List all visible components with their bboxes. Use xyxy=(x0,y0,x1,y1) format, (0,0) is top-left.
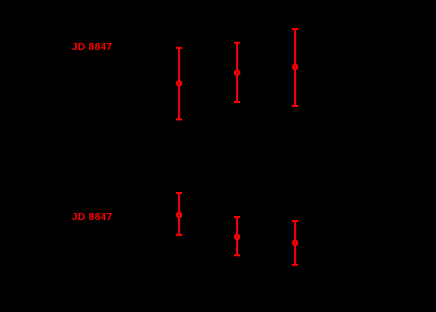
error bar B2 xyxy=(234,217,240,255)
svg-text:JD 8847: JD 8847 xyxy=(72,42,113,53)
error bar B3 xyxy=(292,221,298,265)
error bar T2 xyxy=(234,43,240,102)
marker B2 xyxy=(234,234,241,241)
error bar B1 xyxy=(176,193,182,235)
marker T2 xyxy=(234,69,241,76)
error bar T1 xyxy=(176,48,182,120)
marker B3 xyxy=(292,240,299,247)
marker T3 xyxy=(292,64,299,71)
marker T1 xyxy=(176,80,183,87)
error bar T3 xyxy=(292,29,298,106)
svg-text:JD 8847: JD 8847 xyxy=(72,212,113,223)
label JD 8847 (bottom panel) xyxy=(72,212,113,223)
label JD 8847 (top panel) xyxy=(72,42,113,53)
marker B1 xyxy=(176,212,183,219)
